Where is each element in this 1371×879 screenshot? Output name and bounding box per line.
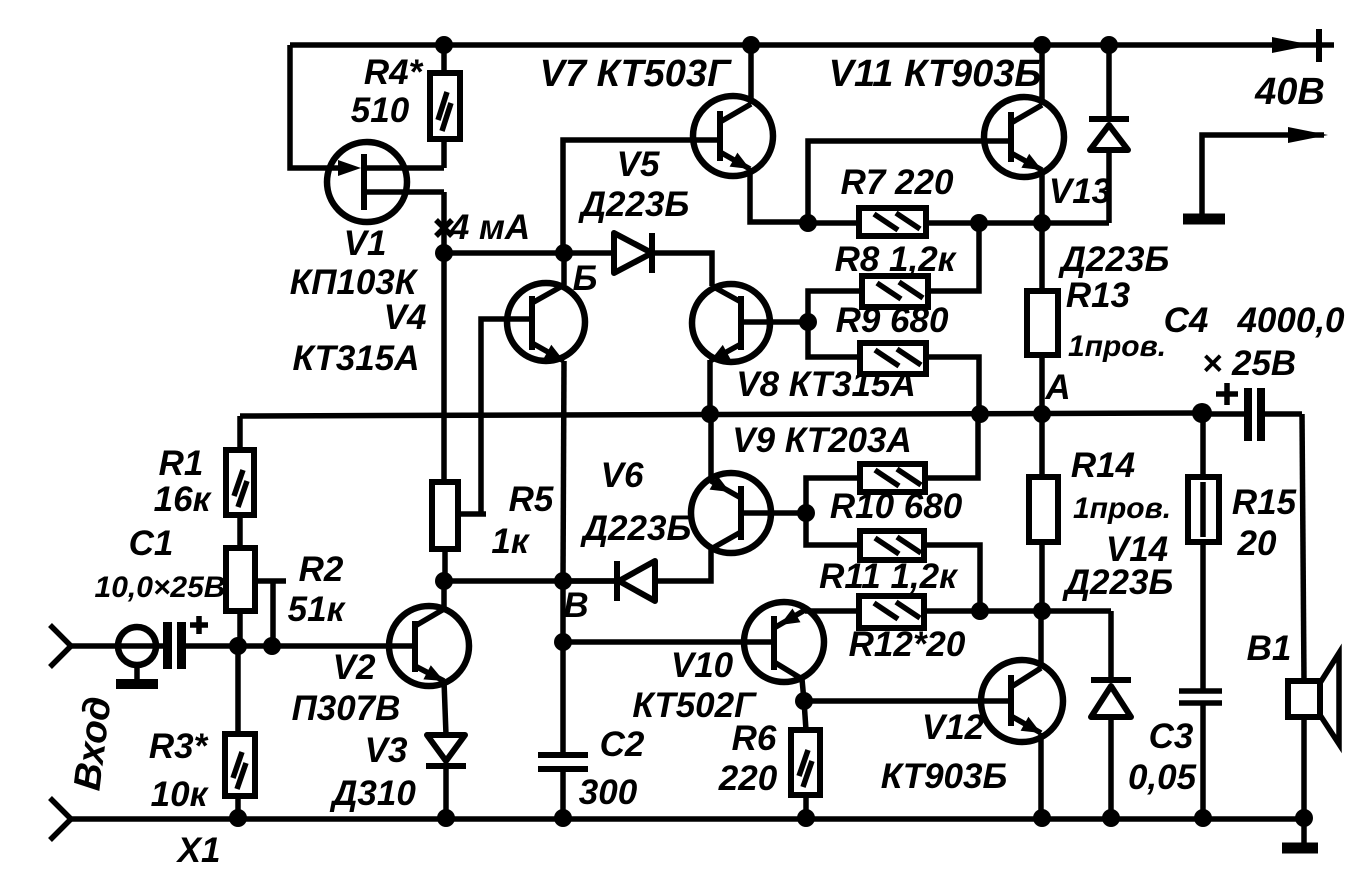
wire: 4mA node down to R5 (441, 253, 447, 482)
wire: V7 base line (563, 140, 720, 253)
svg-text:20: 20 (1237, 524, 1277, 563)
wire: V4 emitter down to node B (563, 361, 564, 581)
wire: V12 collector lead (1038, 611, 1044, 668)
svg-text:R11 1,2к: R11 1,2к (819, 557, 959, 596)
resistor R14 (1029, 477, 1058, 542)
junction V8 base (799, 313, 817, 331)
wire: V4 collector up to 4mA row (561, 253, 567, 285)
resistor R5 (432, 482, 486, 549)
resistor R7 (808, 208, 979, 236)
transistor V11 KT903B (984, 97, 1064, 177)
resistor R1 (226, 450, 254, 515)
junction input node / R1R3 (229, 637, 247, 655)
svg-text:R12*20: R12*20 (849, 625, 966, 664)
wire: output feedback rail (node A row) (240, 403, 1212, 423)
svg-text:R10 680: R10 680 (830, 487, 963, 526)
svg-text:Вход: Вход (67, 694, 120, 792)
svg-text:Б: Б (573, 259, 598, 298)
svg-text:10к: 10к (151, 775, 210, 814)
wire: common output terminal arrow (1202, 135, 1324, 214)
diode V5 D223B (614, 233, 652, 273)
wire: V10 base row from node B (563, 639, 774, 645)
junction rail / R15-C4 (1192, 403, 1212, 423)
wire: input node down to R3 (235, 646, 241, 734)
wire: R7 right node row to V13 (970, 214, 1109, 232)
wire: feedback rail corner down to R1 (237, 416, 243, 450)
wire: node A down to R14 (1039, 414, 1045, 477)
wire: V9 collector down to V6 row (655, 549, 711, 581)
connector X1 input pin top (50, 625, 71, 667)
svg-text:16к: 16к (154, 480, 213, 519)
svg-text:51к: 51к (288, 590, 347, 629)
svg-text:КТ903Б: КТ903Б (881, 757, 1008, 796)
svg-text:Д223Б: Д223Б (578, 185, 689, 224)
svg-text:× 25В: × 25В (1202, 344, 1296, 383)
svg-text:V9 КТ203А: V9 КТ203А (732, 421, 912, 460)
svg-text:V4: V4 (384, 298, 427, 337)
junction rail / R9-R10 (971, 405, 989, 423)
junction bottom rail / V3 (437, 809, 455, 827)
wire: V5 cathode to V8 collector (652, 253, 712, 286)
svg-text:1к: 1к (491, 522, 530, 561)
svg-text:R6: R6 (732, 719, 777, 758)
svg-text:Д310: Д310 (329, 774, 416, 813)
wire: R2 to input node (237, 611, 243, 646)
wire: R14 to V12 collector node (1039, 542, 1045, 611)
junction top rail / V13 (1100, 36, 1118, 54)
ground symbol at bottom right (1282, 818, 1318, 848)
wire: V10 collector to V12 base and R6 (795, 679, 1011, 730)
diode V6 D223B (563, 561, 655, 601)
svg-text:40В: 40В (1254, 71, 1325, 113)
wire: V10 emitter row to R12 (805, 608, 859, 614)
wire: V3 to ground rail (443, 766, 449, 818)
resistor R2 (226, 548, 286, 646)
wire: node B down to C2 and V10 base row (554, 581, 572, 755)
svg-text:R15: R15 (1232, 483, 1297, 522)
wire: C3 to ground rail (1200, 703, 1206, 818)
wire: input line to C1 (71, 643, 163, 649)
connector X1 input pin bottom (50, 798, 71, 840)
svg-text:R14: R14 (1071, 446, 1135, 485)
svg-text:Д223Б: Д223Б (1058, 240, 1169, 279)
wire: V11 emitter down to R13 node (1033, 169, 1051, 232)
measuring point 4mA cross (436, 220, 452, 236)
junction V10 base row (554, 633, 572, 651)
svg-text:R8 1,2к: R8 1,2к (835, 240, 958, 279)
plus terminal mark on +40V rail (1316, 29, 1322, 62)
wire: V9 emitter up to feedback rail (708, 415, 714, 480)
svg-text:V3: V3 (365, 731, 408, 770)
wire: R13 to node A (1039, 355, 1045, 414)
diode V14 D223B (1091, 611, 1131, 818)
junction bottom rail / R3 (229, 809, 247, 827)
transistor V4 KT315A (507, 283, 585, 361)
svg-text:300: 300 (579, 773, 638, 812)
svg-text:В1: В1 (1247, 629, 1292, 668)
diode V13 D223B (1089, 45, 1129, 223)
resistor R9 (808, 322, 979, 414)
wire: R3 to ground rail (235, 796, 241, 818)
junction top rail / V11 collector (1033, 36, 1051, 54)
wire: R5 tap up to V4 base (481, 319, 532, 514)
wire: V2 collector up to node B row (441, 581, 447, 609)
wire: V1 source down to 4mA node (441, 192, 447, 253)
wire: V8 emitter to feedback rail (707, 360, 713, 415)
ground symbol at common terminal (1183, 214, 1225, 225)
svg-text:1пров.: 1пров. (1073, 492, 1171, 525)
svg-text:220: 220 (718, 759, 778, 798)
svg-text:С1: С1 (129, 524, 174, 563)
resistor R11 (806, 513, 980, 611)
svg-text:R4*: R4* (364, 53, 424, 92)
wire: V1 gate loop from top rail (290, 45, 350, 168)
wire: bottom ground rail (71, 809, 1313, 827)
svg-text:V8 КТ315А: V8 КТ315А (736, 365, 916, 404)
resistor R15 (1188, 477, 1219, 542)
resistor R4 (430, 73, 460, 139)
capacitor C3 (1179, 691, 1222, 703)
svg-text:V10: V10 (671, 646, 734, 685)
junction input node / R2 tap (263, 637, 281, 655)
svg-text:КП103К: КП103К (290, 263, 419, 302)
junction R11/R12 (971, 602, 989, 620)
svg-text:Д223Б: Д223Б (1062, 563, 1173, 602)
svg-text:V7 КТ503Г: V7 КТ503Г (540, 53, 732, 95)
svg-text:V2: V2 (333, 648, 376, 687)
junction V9 base (797, 504, 815, 522)
wire: R4 to V1 drain (441, 139, 447, 168)
svg-text:R13: R13 (1066, 276, 1131, 315)
resistor R10 (806, 414, 978, 513)
wire: C4 down to speaker (1302, 414, 1304, 681)
transistor V9 KT203A mirrored PNP (691, 473, 806, 553)
svg-text:V1: V1 (344, 224, 387, 263)
wire: R1 to R2 (237, 515, 243, 548)
wire: 4mA node row to V5 and V7 base column (435, 244, 614, 262)
svg-text:V12: V12 (922, 708, 985, 747)
wire: speaker to ground rail (1301, 717, 1307, 818)
junction V7 base column (555, 244, 573, 262)
transistor V12 KT903B (981, 660, 1063, 742)
svg-text:R1: R1 (159, 444, 204, 483)
svg-text:А: А (1044, 368, 1070, 407)
junction bottom rail / C3 (1194, 809, 1212, 827)
svg-text:В: В (563, 586, 588, 625)
wire: R5 bottom to V2 collector junction (435, 549, 453, 590)
wire: V12 emitter to ground rail (1038, 733, 1044, 818)
resistor R12 (859, 596, 1111, 628)
svg-text:1пров.: 1пров. (1068, 330, 1166, 363)
svg-text:V11 КТ903Б: V11 КТ903Б (829, 53, 1042, 95)
transistor V1 KP103K JFET (327, 142, 444, 222)
svg-text:0,05: 0,05 (1128, 758, 1197, 797)
capacitor C4 (1202, 383, 1302, 441)
junction bottom rail / V12 emitter (1033, 809, 1051, 827)
junction top rail / V7 collector (742, 36, 760, 54)
svg-text:R5: R5 (509, 480, 554, 519)
svg-text:510: 510 (351, 91, 410, 130)
junction bottom rail / V14 (1102, 809, 1120, 827)
svg-text:С4: С4 (1164, 301, 1209, 340)
wire: top rail to R4 (441, 45, 447, 73)
resistor R3 (225, 734, 255, 796)
junction node B (554, 572, 572, 590)
wire: node B row (444, 572, 617, 590)
svg-text:Д223Б: Д223Б (580, 509, 691, 548)
shielded cable screen symbol (116, 627, 158, 684)
resistor R8 (808, 223, 979, 322)
transistor V2 P307V (389, 606, 469, 686)
svg-text:R3*: R3* (149, 727, 209, 766)
svg-text:X1: X1 (176, 831, 221, 870)
svg-text:КТ315А: КТ315А (293, 339, 420, 378)
arrowhead of common terminal (1288, 127, 1328, 143)
svg-text:П307В: П307В (292, 689, 401, 728)
capacitor C2 (538, 755, 588, 769)
svg-text:R2: R2 (299, 550, 344, 589)
svg-text:10,0×25В: 10,0×25В (95, 571, 226, 604)
junction top rail / R4 (435, 36, 453, 54)
wire: V2 emitter down to V3 (444, 681, 446, 735)
resistor R6 (791, 730, 820, 795)
wire: R15 column from feedback rail (1200, 413, 1206, 477)
junction bottom rail / R6 (797, 809, 815, 827)
wire: R6 to ground rail (803, 795, 809, 818)
wire: V11 base line (808, 141, 1011, 223)
svg-text:V6: V6 (601, 456, 644, 495)
junction V12 collector (1033, 602, 1051, 620)
junction rail / V8-V9 emitters (701, 405, 719, 423)
svg-text:R7 220: R7 220 (841, 163, 954, 202)
wire: C2 to ground rail (560, 769, 566, 818)
wire: R15 to C3 (1200, 542, 1206, 691)
node A junction (1033, 405, 1051, 423)
svg-text:4000,0: 4000,0 (1236, 301, 1345, 340)
svg-text:4 мА: 4 мА (449, 208, 530, 247)
svg-text:V5: V5 (617, 145, 660, 184)
svg-text:С2: С2 (600, 725, 645, 764)
wire: V7 emitter to R7 node (750, 168, 817, 232)
speaker B1 (1288, 653, 1339, 744)
junction bottom rail / speaker (1295, 809, 1313, 827)
arrowhead of +40V rail (1272, 37, 1312, 53)
transistor V10 KT502G PNP (744, 602, 824, 682)
diode V3 D310 (426, 735, 466, 766)
wire: V11 collector to top rail (1039, 45, 1045, 105)
transistor V8 KT315A mirrored (692, 284, 808, 362)
wire: +40V top supply rail (290, 36, 1334, 54)
junction bottom rail / C2 (554, 809, 572, 827)
junction 4mA node (435, 244, 453, 262)
svg-text:С3: С3 (1149, 717, 1194, 756)
wire: V7 collector to top rail (748, 45, 754, 104)
svg-text:V13: V13 (1049, 172, 1112, 211)
transistor V7 KT503G (693, 96, 773, 176)
resistor R13 (1027, 291, 1058, 355)
wire: C1 to V2 base node (186, 637, 415, 655)
svg-text:R9 680: R9 680 (836, 301, 949, 340)
wire: R13 column from V11 emitter node (1039, 223, 1045, 291)
capacitor C1 (163, 616, 208, 669)
